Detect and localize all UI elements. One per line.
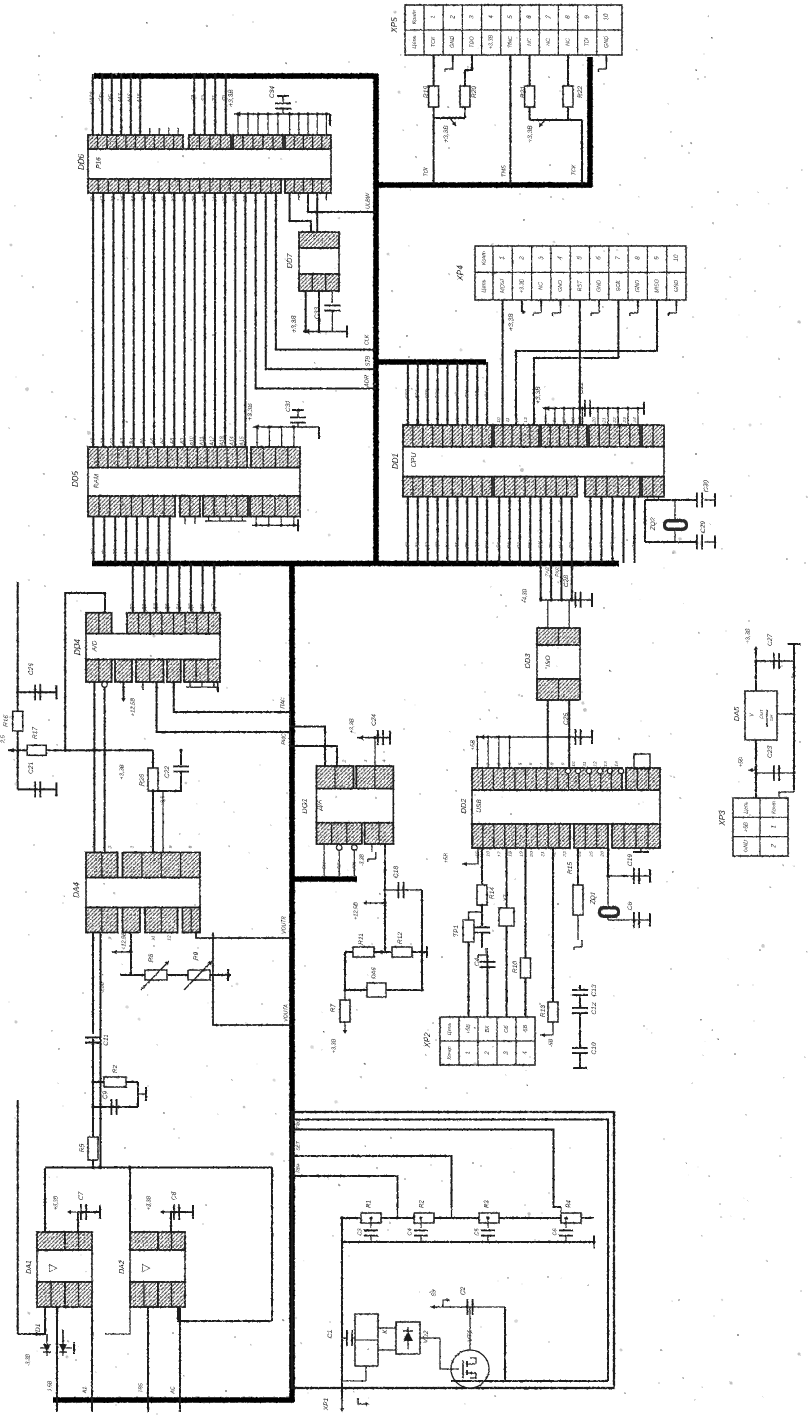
svg-text:RАМ: RАМ (94, 473, 101, 488)
svg-text:С11: С11 (103, 1034, 110, 1046)
svg-text:27: 27 (202, 195, 208, 203)
svg-text:9: 9 (654, 256, 661, 260)
svg-text:ХР5: ХР5 (390, 17, 399, 34)
svg-text:2,5: 2,5 (0, 734, 6, 744)
svg-text:А17: А17 (118, 92, 124, 103)
svg-text:35: 35 (121, 196, 127, 202)
svg-text:ZQ2: ZQ2 (650, 517, 657, 531)
svg-text:9: 9 (107, 936, 113, 939)
svg-text:DА6: DА6 (372, 967, 378, 979)
svg-text:R1: R1 (367, 1200, 373, 1208)
svg-text:ТСК: ТСК (431, 36, 437, 47)
svg-text:АС: АС (170, 1386, 176, 1394)
svg-text:+3.3В: +3.3В (489, 34, 495, 49)
svg-text:С6: С6 (552, 1228, 558, 1236)
svg-text:А13: А13 (220, 436, 226, 446)
svg-text:+5В: +5В (738, 757, 744, 767)
svg-text:VОUТВ: VОUТВ (281, 916, 287, 934)
svg-text:А4: А4 (620, 542, 626, 549)
svg-text:А15: А15 (137, 93, 143, 103)
svg-text:-3,3В: -3,3В (99, 981, 105, 994)
svg-text:АД: АД (474, 390, 480, 398)
svg-text:4: 4 (149, 845, 155, 848)
svg-text:Конт: Конт (447, 1046, 453, 1060)
svg-text:25: 25 (588, 851, 594, 858)
svg-text:АDR: АDR (364, 375, 370, 388)
svg-text:GND: GND (558, 280, 564, 292)
svg-text:18: 18 (507, 851, 513, 857)
svg-text:6: 6 (596, 256, 603, 260)
svg-text:8: 8 (634, 256, 641, 260)
svg-text:7: 7 (539, 762, 545, 765)
svg-text:Д7: Д7 (474, 542, 480, 549)
svg-text:R2: R2 (112, 1064, 119, 1073)
svg-text:ULВW: ULВW (365, 192, 371, 209)
svg-text:ZQ1: ZQ1 (590, 891, 597, 905)
svg-text:+5В: +5В (466, 1024, 472, 1034)
svg-text:ПВ4: ПВ4 (295, 1163, 301, 1173)
svg-text:Д/А: Д/А (317, 800, 324, 812)
svg-text:Конт: Конт (481, 251, 487, 265)
svg-text:DА5: DА5 (732, 706, 741, 721)
svg-text:НУ: НУ (352, 862, 357, 869)
svg-text:2: 2 (519, 256, 526, 261)
svg-text:ТХД: ТХД (544, 567, 550, 577)
svg-text:19: 19 (518, 851, 524, 857)
svg-text:16: 16 (486, 851, 492, 857)
svg-text:3: 3 (129, 845, 135, 848)
svg-text:7: 7 (545, 15, 552, 19)
svg-text:DD6: DD6 (77, 153, 86, 170)
svg-text:R5: R5 (79, 1143, 86, 1152)
svg-text:С10: С10 (591, 1042, 598, 1054)
svg-text:С4: С4 (407, 1228, 413, 1235)
svg-text:А1: А1 (100, 438, 106, 445)
svg-text:С23: С23 (767, 746, 774, 758)
svg-text:ТР1: ТР1 (453, 925, 460, 937)
svg-text:SЕТ: SЕТ (295, 1140, 301, 1150)
svg-text:Р0: Р0 (496, 542, 502, 548)
svg-text:14: 14 (614, 761, 620, 767)
svg-text:С34: С34 (269, 86, 276, 98)
svg-text:VD1: VD1 (35, 1323, 42, 1336)
svg-text:-3,3В: -3,3В (359, 853, 365, 866)
svg-text:ТМС: ТМС (508, 36, 514, 48)
svg-text:1: 1 (91, 845, 97, 848)
svg-text:4: 4 (557, 256, 564, 260)
svg-text:22: 22 (612, 417, 618, 424)
svg-text:ХР1: ХР1 (323, 1397, 330, 1411)
svg-text:А16: А16 (128, 93, 134, 103)
svg-text:R26: R26 (139, 774, 146, 786)
svg-text:1: 1 (499, 256, 506, 259)
svg-text:6: 6 (526, 15, 533, 19)
svg-text:8: 8 (550, 762, 556, 765)
svg-text:38: 38 (90, 196, 96, 202)
svg-text:DD1: DD1 (391, 453, 400, 469)
svg-text:А1: А1 (587, 542, 593, 549)
svg-text:С2: С2 (460, 1286, 467, 1295)
svg-text:ХР2: ХР2 (423, 1032, 432, 1049)
svg-text:Конт: Конт (771, 801, 777, 814)
svg-text:2: 2 (449, 15, 456, 20)
svg-text:21: 21 (540, 851, 546, 858)
svg-text:Р2: Р2 (517, 542, 523, 548)
svg-text:+3,3В: +3,3В (247, 403, 254, 421)
svg-text:ПВ2: ПВ2 (295, 1119, 301, 1129)
svg-text:3: 3 (363, 759, 369, 762)
svg-text:5: 5 (507, 15, 514, 19)
svg-text:1: 1 (323, 759, 329, 762)
svg-text:R11: R11 (358, 933, 365, 945)
svg-text:NС: NС (527, 38, 533, 46)
svg-text:12: 12 (592, 761, 598, 767)
svg-text:+4,3В: +4,3В (522, 588, 528, 603)
svg-text:32: 32 (151, 196, 157, 202)
svg-text:Д0: Д0 (90, 549, 96, 556)
svg-text:РХ: РХ (558, 541, 564, 548)
svg-text:NС: NС (539, 282, 545, 290)
svg-text:А5: А5 (140, 438, 146, 445)
svg-text:SО: SО (444, 390, 450, 397)
svg-text:-5В: -5В (523, 1024, 529, 1033)
svg-text:34: 34 (131, 196, 137, 202)
svg-text:1: 1 (466, 1051, 472, 1054)
svg-text:РВ: РВ (569, 541, 575, 548)
svg-text:1: 1 (772, 825, 778, 828)
svg-text:DD2: DD2 (459, 798, 468, 814)
svg-text:Х7: Х7 (503, 894, 509, 903)
svg-text:33: 33 (141, 196, 147, 202)
svg-text:R9: R9 (193, 951, 200, 960)
svg-text:А2: А2 (110, 438, 116, 445)
svg-text:VОUТА: VОUТА (283, 1004, 289, 1022)
svg-text:9: 9 (560, 762, 566, 765)
svg-text:GН: GН (464, 390, 470, 398)
svg-text:С12: С12 (591, 1002, 598, 1014)
svg-text:+3,3В: +3,3В (535, 386, 542, 404)
svg-text:11: 11 (150, 935, 156, 940)
svg-text:С24: С24 (371, 714, 378, 726)
svg-text:Д7: Д7 (166, 549, 172, 556)
svg-text:SД: SД (537, 541, 543, 548)
svg-text:8: 8 (565, 15, 572, 19)
svg-text:СЕ: СЕ (99, 94, 105, 102)
svg-text:5: 5 (517, 762, 523, 765)
svg-text:12: 12 (514, 417, 520, 423)
svg-text:GND: GND (597, 280, 603, 292)
svg-text:5: 5 (577, 256, 584, 260)
svg-text:▷: ▷ (49, 1262, 58, 1274)
svg-text:20: 20 (529, 851, 535, 858)
svg-text:С33: С33 (314, 307, 321, 319)
svg-text:R2: R2 (420, 1200, 426, 1208)
svg-text:А8: А8 (170, 438, 176, 445)
svg-text:СРU: СРU (411, 452, 418, 468)
svg-text:А11: А11 (200, 436, 206, 446)
svg-text:+12,5В: +12,5В (121, 932, 127, 950)
svg-text:DD3: DD3 (523, 653, 532, 669)
svg-text:GND: GND (743, 840, 749, 852)
svg-text:Конт: Конт (412, 10, 418, 24)
svg-text:С21: С21 (28, 762, 35, 774)
svg-text:20: 20 (591, 417, 597, 424)
svg-text:Д6: Д6 (464, 542, 470, 549)
svg-text:-3,3В: -3,3В (25, 1353, 31, 1366)
svg-text:РХД: РХД (555, 567, 561, 577)
svg-text:36: 36 (111, 196, 117, 202)
svg-text:+12,5В: +12,5В (131, 698, 137, 717)
svg-text:3: 3 (469, 15, 476, 19)
svg-text:Д0: Д0 (405, 542, 411, 549)
svg-text:С22: С22 (578, 382, 585, 394)
svg-text:С6: С6 (627, 901, 634, 910)
svg-text:R4: R4 (567, 1200, 573, 1208)
svg-text:30: 30 (172, 196, 178, 202)
svg-text:+3,3В: +3,3В (331, 1038, 337, 1053)
svg-text:Д5: Д5 (454, 542, 460, 549)
svg-text:+3,3В: +3,3В (146, 1195, 152, 1210)
svg-text:SЕ2: SЕ2 (405, 389, 411, 398)
svg-text:SI: SI (454, 391, 460, 396)
svg-text:С22: С22 (164, 766, 171, 778)
svg-text:ТDI: ТDI (423, 167, 429, 176)
svg-text:R20: R20 (471, 86, 478, 98)
svg-text:Д5: Д5 (145, 549, 151, 556)
svg-text:ОБ: ОБ (504, 1025, 510, 1033)
svg-text:Д4: Д4 (134, 549, 140, 556)
svg-text:4: 4 (488, 15, 495, 19)
svg-text:2: 2 (341, 759, 347, 763)
svg-text:24: 24 (233, 196, 239, 203)
svg-text:23: 23 (622, 417, 628, 424)
svg-text:NС: NС (546, 38, 552, 46)
svg-text:SСК: SСК (616, 280, 622, 291)
svg-text:+3,3В: +3,3В (443, 125, 450, 143)
svg-text:R8: R8 (148, 953, 155, 962)
svg-text:ПАС: ПАС (280, 697, 286, 708)
svg-text:23: 23 (243, 196, 249, 203)
svg-text:R3: R3 (485, 1200, 491, 1208)
svg-text:ISО: ISО (545, 655, 552, 666)
svg-text:+5В: +5В (444, 853, 450, 864)
svg-text:Т1: Т1 (212, 95, 218, 101)
svg-text:S9: S9 (431, 1290, 437, 1297)
svg-text:6: 6 (528, 762, 534, 765)
svg-text:А0: А0 (90, 438, 96, 445)
svg-text:СLК: СLК (364, 334, 370, 345)
svg-text:А12: А12 (210, 436, 216, 446)
svg-text:С3: С3 (357, 1228, 363, 1236)
svg-text:1,5В: 1,5В (47, 1380, 53, 1391)
svg-text:С1: С1 (327, 1329, 334, 1338)
svg-text:С9: С9 (102, 1090, 109, 1099)
svg-text:DD5: DD5 (71, 470, 80, 487)
svg-text:С13: С13 (591, 984, 598, 996)
svg-text:SТВ: SТВ (365, 355, 371, 366)
svg-text:11: 11 (505, 417, 511, 422)
svg-text:31: 31 (162, 196, 168, 202)
svg-text:DА4: DА4 (72, 882, 81, 898)
svg-text:С29: С29 (700, 521, 707, 533)
svg-text:R14: R14 (489, 887, 496, 899)
svg-text:МISО: МISО (654, 278, 660, 293)
svg-text:С26: С26 (28, 663, 35, 675)
svg-text:R22: R22 (577, 86, 584, 98)
svg-text:14: 14 (532, 417, 538, 423)
svg-text:Д4: Д4 (444, 542, 450, 549)
svg-text:РИС: РИС (281, 733, 287, 745)
svg-text:А14: А14 (229, 436, 235, 446)
svg-text:+5В: +5В (471, 740, 477, 751)
svg-text:С27: С27 (767, 634, 774, 646)
svg-text:С18: С18 (393, 866, 400, 878)
svg-text:МОSI: МОSI (500, 279, 506, 293)
svg-text:DА2: DА2 (119, 1260, 126, 1274)
svg-text:2: 2 (107, 845, 113, 849)
svg-text:+3,3В: +3,3В (120, 764, 126, 779)
svg-text:28: 28 (192, 196, 198, 203)
svg-text:Д3: Д3 (123, 549, 129, 556)
svg-text:26: 26 (212, 196, 218, 203)
svg-text:DD7: DD7 (285, 253, 294, 269)
svg-text:-5В: -5В (548, 1038, 554, 1047)
svg-text:29: 29 (182, 196, 188, 203)
svg-text:NС: NС (565, 38, 571, 46)
svg-text:ТСК: ТСК (571, 164, 577, 175)
svg-text:1: 1 (430, 15, 437, 18)
svg-text:КА19: КА19 (90, 92, 96, 104)
svg-text:11: 11 (582, 761, 588, 766)
svg-text:10: 10 (603, 13, 610, 20)
svg-text:R13: R13 (540, 1005, 547, 1017)
svg-text:Т2: Т2 (202, 95, 208, 101)
svg-text:С5: С5 (474, 1228, 480, 1236)
svg-text:ХР4: ХР4 (456, 265, 465, 282)
svg-text:R12: R12 (397, 932, 404, 944)
svg-text:DА1: DА1 (26, 1260, 33, 1274)
svg-text:+3.3В: +3.3В (519, 278, 525, 293)
svg-text:С19: С19 (627, 854, 634, 866)
svg-text:А1: А1 (82, 1387, 88, 1395)
svg-text:РА: РА (631, 542, 637, 548)
svg-text:Д3: Д3 (434, 542, 440, 549)
svg-text:R19: R19 (423, 86, 430, 98)
svg-text:21: 21 (602, 417, 608, 424)
svg-text:5: 5 (168, 845, 174, 848)
svg-text:Р16: Р16 (96, 157, 103, 169)
svg-text:VD2: VD2 (423, 1330, 430, 1343)
svg-text:SТВ: SТВ (424, 389, 430, 399)
svg-text:2: 2 (772, 844, 778, 849)
svg-text:ХР3: ХР3 (718, 810, 727, 827)
svg-text:+5В: +5В (743, 822, 749, 832)
svg-text:С31: С31 (285, 400, 292, 412)
svg-text:А/D: А/D (92, 640, 99, 652)
svg-text:+3,3В: +3,3В (291, 315, 298, 333)
svg-text:USВ: USВ (476, 799, 483, 813)
svg-text:ТХ: ТХ (548, 541, 554, 548)
svg-text:10: 10 (673, 254, 680, 261)
svg-text:9: 9 (584, 15, 591, 19)
svg-text:Цепь: Цепь (481, 279, 487, 292)
svg-text:А15: А15 (239, 436, 245, 446)
svg-text:Цепь: Цепь (743, 801, 749, 813)
svg-text:13: 13 (603, 761, 609, 767)
svg-text:R10: R10 (512, 961, 519, 973)
svg-text:10: 10 (571, 761, 577, 767)
svg-text:DD4: DD4 (73, 638, 82, 655)
svg-text:А10: А10 (190, 436, 196, 446)
svg-text:4: 4 (381, 759, 387, 762)
svg-text:ТМS: ТМS (501, 165, 507, 177)
svg-text:SСК: SСК (434, 388, 440, 399)
svg-text:ТDI: ТDI (585, 37, 591, 46)
svg-text:GND: GND (450, 36, 456, 48)
svg-text:+3,3В: +3,3В (228, 89, 235, 107)
svg-text:24: 24 (632, 417, 638, 424)
svg-text:Д1: Д1 (415, 542, 421, 549)
svg-text:▷: ▷ (142, 1262, 151, 1274)
svg-text:А3: А3 (609, 542, 615, 549)
svg-text:С28: С28 (563, 575, 570, 587)
svg-text:GND: GND (604, 36, 610, 48)
svg-text:Д2: Д2 (424, 542, 430, 549)
svg-text:GND: GND (674, 280, 680, 292)
svg-text:7: 7 (615, 256, 622, 260)
svg-text:СS: СS (484, 390, 490, 397)
svg-text:R15: R15 (567, 862, 574, 874)
svg-text:ОUТ: ОUТ (759, 709, 764, 719)
svg-text:R16: R16 (3, 715, 10, 727)
svg-text:+3,3В: +3,3В (527, 125, 534, 143)
svg-text:А3: А3 (120, 438, 126, 445)
svg-text:GND: GND (635, 280, 641, 292)
svg-text:+12,5В: +12,5В (353, 902, 359, 920)
svg-text:13: 13 (523, 417, 529, 423)
svg-text:ТDО: ТDО (469, 36, 475, 48)
svg-text:Цепь: Цепь (447, 1023, 453, 1036)
svg-text:+3,3В: +3,3В (53, 1195, 59, 1210)
svg-text:R17: R17 (32, 727, 39, 739)
svg-text:К1: К1 (382, 1326, 389, 1334)
svg-text:2: 2 (485, 1051, 491, 1056)
svg-text:Цепь: Цепь (412, 35, 418, 48)
svg-text:Д1: Д1 (101, 549, 107, 556)
svg-text:GН: GН (769, 714, 774, 721)
svg-text:А6: А6 (150, 438, 156, 445)
svg-text:23: 23 (562, 851, 568, 858)
svg-text:А2: А2 (598, 542, 604, 549)
svg-text:26: 26 (600, 851, 606, 858)
svg-text:ТВ5: ТВ5 (138, 1383, 144, 1393)
svg-text:GН: GН (321, 862, 326, 870)
svg-text:+3,3В: +3,3В (350, 718, 356, 733)
svg-text:R7: R7 (330, 1003, 337, 1012)
svg-text:Д2: Д2 (112, 549, 118, 556)
svg-text:SЕ1: SЕ1 (415, 389, 421, 398)
svg-text:+3,3В: +3,3В (508, 313, 515, 331)
svg-text:С8: С8 (171, 1191, 178, 1200)
svg-text:17: 17 (496, 851, 502, 857)
svg-text:R21: R21 (520, 86, 527, 98)
svg-text:GН: GН (484, 541, 490, 549)
svg-text:РС: РС (527, 541, 533, 548)
svg-text:ВХ: ВХ (485, 1025, 491, 1032)
svg-text:3: 3 (538, 256, 545, 260)
svg-text:А9: А9 (180, 438, 186, 445)
svg-text:DG1: DG1 (300, 798, 309, 813)
